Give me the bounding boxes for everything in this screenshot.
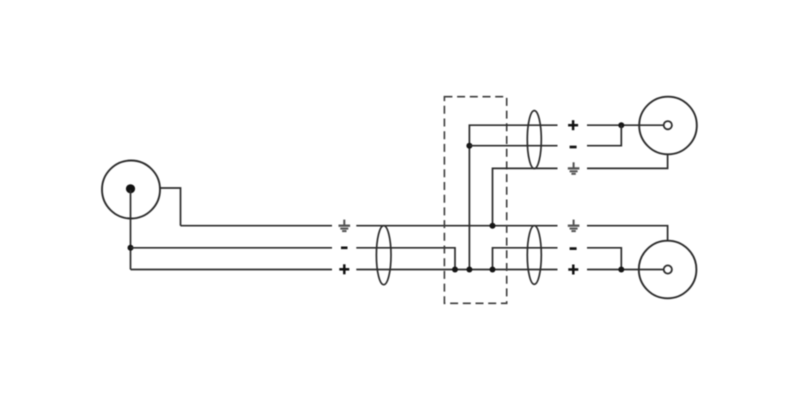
cable shield ellipse bottom right <box>527 226 541 285</box>
node tip-minus junction <box>128 245 134 251</box>
wire J1 sleeve to shield line <box>160 188 181 226</box>
connector J1 tip contact (center dot) <box>126 184 135 193</box>
ground symbol top right <box>568 162 580 174</box>
wire top shield riser <box>493 168 558 225</box>
wire top minus to tie <box>587 125 621 146</box>
wire bottom plus to pin <box>587 269 664 271</box>
minus label bottom right <box>570 247 577 250</box>
plus label top right <box>568 120 578 130</box>
connector J3 pin <box>664 265 672 273</box>
wire minus line left segment <box>131 247 333 249</box>
minus label top right <box>570 146 577 149</box>
wire plus line mid segment <box>356 269 557 271</box>
cable shield ellipse left <box>376 226 391 285</box>
wire bottom minus to tie <box>587 248 621 270</box>
wire J1 tip down to + line <box>130 190 132 270</box>
node top minus tie <box>618 122 624 128</box>
wire top plus to pin <box>587 124 664 126</box>
cable shield ellipse top right <box>527 111 541 169</box>
wire split riser to top plus <box>469 125 557 269</box>
wire bottom shield to shell <box>587 226 668 241</box>
node split minus-top junction <box>466 143 472 149</box>
node shield junction <box>490 223 496 229</box>
wire top shield to shell <box>587 154 668 168</box>
connector J2 (top RCA shell) <box>639 97 697 155</box>
connector J2 pin <box>664 121 672 129</box>
minus label left <box>341 247 348 250</box>
node plus riser junction <box>466 267 472 273</box>
wire top minus segment <box>469 145 557 147</box>
connector J3 (bottom RCA shell) <box>639 241 697 299</box>
ground symbol bottom right <box>568 220 580 232</box>
junction box (dashed) <box>444 97 506 304</box>
wire minus line mid segment to split <box>356 248 455 270</box>
wire shield line left segment <box>181 225 333 227</box>
wire plus line left segment <box>131 269 333 271</box>
ground symbol left shield <box>339 220 351 232</box>
node bottom minus tie <box>618 267 624 273</box>
connector J1 (left plug body) <box>102 161 160 219</box>
plus label left <box>339 264 349 274</box>
wire shield line mid segment <box>356 225 557 227</box>
wire bottom minus right riser <box>493 248 558 270</box>
plus label bottom right <box>568 265 578 275</box>
node minus-plus junction B <box>490 267 496 273</box>
node minus-plus junction A <box>452 267 458 273</box>
